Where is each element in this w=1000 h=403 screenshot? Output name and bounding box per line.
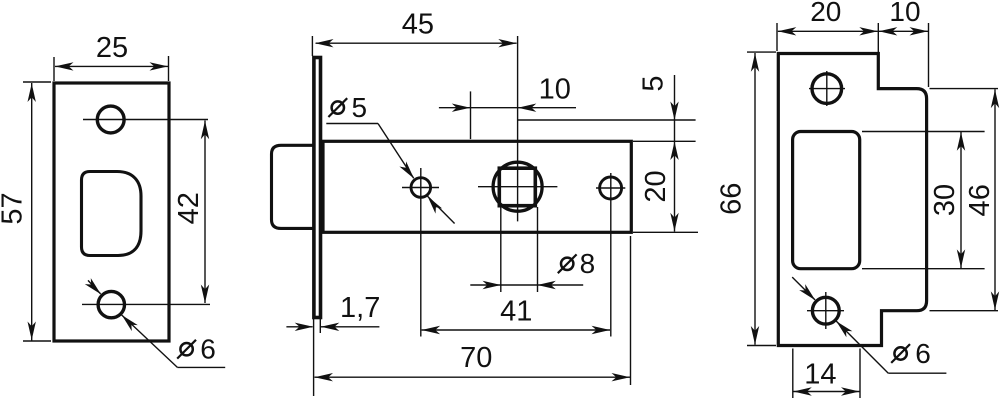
dim line 30 [960,132,962,268]
top hole centerline / ext for 42 [83,119,208,121]
strike bottom screw hole [812,297,839,324]
ext line bottom for 57 [23,340,51,342]
faceplate bottom screw hole [98,291,124,317]
ext bottom for 66 [747,345,776,347]
strike plate latch cutout [793,132,860,269]
ext mid for 20 and 10 [877,23,879,52]
svg-text:5: 5 [352,92,368,123]
leader dia5 horizontal [326,123,378,125]
ext line top for 57 [23,81,51,83]
dim line 70 [315,376,631,378]
spindle square hole [499,168,535,206]
hole dia5 [411,178,431,198]
leader line dia6 horizontal [177,366,225,368]
strike top screw hole [812,74,842,104]
dim line 42 [204,121,206,304]
dim line 10 right view [879,30,928,32]
ext line right for 1,7 [319,319,321,333]
dim line 25 [55,65,168,67]
svg-text:6: 6 [200,334,216,365]
strike bottom hole h centerline [807,310,844,312]
svg-text:57: 57 [0,192,28,224]
spindle v centerline / ext for 45 and 10 [517,36,519,221]
dim line 20 right view [778,30,878,32]
leader dia6 right view horizontal [888,372,946,374]
svg-text:70: 70 [460,342,492,374]
hole right [600,177,622,199]
svg-text:45: 45 [402,9,434,41]
ext line right for 25 [168,56,170,81]
dim line 41 [422,329,610,331]
ext line right for 70 [630,236,632,385]
dim text dia5 [328,92,367,123]
spindle h centerline [478,186,557,188]
leader line dia6 upper [88,280,101,294]
dim line 5 and 20 [674,75,676,232]
svg-text:46: 46 [964,184,996,216]
bottom hole centerline / ext for 42 [82,303,210,305]
svg-text:42: 42 [173,192,205,224]
latch bolt protruding [272,145,314,228]
svg-text:20: 20 [640,170,672,202]
ext left for 14 [792,349,794,399]
ext bottom for 46 (tab bottom) [930,310,999,312]
dim line 46 [994,89,996,310]
ext bottom for 30 (cutout bottom) [862,268,985,270]
leader line dia6 lower [121,315,177,368]
svg-text:10: 10 [539,74,571,106]
ext line left for 25 [53,57,55,81]
leader dia5 tail [427,196,454,224]
ext top for 30 (cutout top) [862,131,985,133]
strike bottom hole v centerline [825,292,827,329]
ref line for 5 [518,119,696,121]
svg-text:30: 30 [929,184,961,216]
leader dia5 diagonal [378,124,414,179]
dim line 8 [470,284,583,286]
faceplate edge-on bar [314,58,321,318]
strike top hole v centerline [826,71,828,106]
body top ext [633,140,696,142]
right hole h centerline [596,187,625,189]
latch bolt cutout in faceplate [82,172,142,256]
spindle circle [493,162,542,211]
ext left for 20 [776,23,778,51]
dim line 1,7 right tail [321,326,380,328]
ext right for 10 [928,23,930,87]
faceplate top screw hole [97,106,124,133]
dim text dia8 [558,248,595,279]
body bottom ext [633,231,698,233]
dim text dia6 left view [177,334,216,365]
leader dia6 right view upper [792,277,815,300]
ext top for 66 [747,51,776,53]
ext line for 10 [470,91,472,139]
dim line 45 [316,42,517,44]
svg-text:41: 41 [500,296,532,328]
square left ext for dia8 [500,207,502,292]
right hole v centerline / ext for 41 [610,173,612,337]
dim line 14 [793,391,859,393]
square right ext for dia8 [537,207,539,292]
strike plate outline [778,54,926,346]
svg-text:1,7: 1,7 [340,292,380,324]
svg-text:20: 20 [810,0,841,27]
svg-text:14: 14 [804,358,836,390]
ext top for 46 (tab top) [930,88,999,90]
svg-text:8: 8 [580,248,596,279]
svg-text:6: 6 [915,338,931,369]
strike top hole h centerline [809,88,845,90]
leader dia6 right view lower [836,321,888,373]
dim line 66 [754,53,756,345]
ext line left for 1,7 and 70 [313,319,315,396]
ext line above faceplate for 45 [311,36,313,56]
dim line 10 [439,107,576,109]
faceplate front view outline [54,83,169,341]
dim line 1,7 left tail [286,326,312,328]
svg-text:5: 5 [638,75,670,91]
dia5 h centerline [402,187,439,189]
ext right for 14 [859,349,861,399]
svg-text:66: 66 [716,183,748,215]
dia5 v centerline / ext for 41 [420,168,422,337]
dim line 57 [31,83,33,341]
svg-text:25: 25 [96,32,128,64]
dim text dia6 right view [891,338,931,369]
latch body outline [323,141,631,232]
svg-text:10: 10 [889,0,920,27]
